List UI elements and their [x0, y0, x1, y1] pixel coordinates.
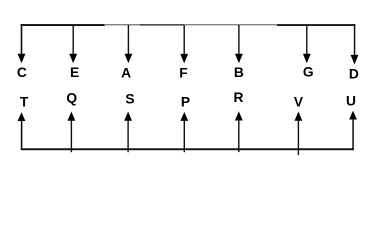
arrowhead G [303, 54, 311, 64]
wire stem B [238, 25, 239, 56]
arrowhead P [180, 112, 188, 121]
wire stem R [238, 120, 239, 153]
wire stem U [352, 119, 354, 151]
arrowhead U [349, 111, 357, 120]
arrowhead E [69, 54, 77, 64]
arrowhead Q [68, 112, 76, 121]
arrowhead S [124, 112, 132, 121]
svg-text:V: V [294, 94, 304, 109]
wire stem D [354, 24, 356, 57]
wire stem S [127, 120, 128, 153]
bottom bus wire [21, 148, 354, 150]
top bus wire left black segment [21, 24, 105, 26]
svg-text:U: U [346, 94, 356, 109]
wire stem Q [71, 120, 72, 153]
wire stem F [184, 25, 185, 56]
wire stem G [306, 25, 307, 56]
wire stem T [21, 120, 23, 150]
top bus wire gray segment [184, 24, 277, 25]
arrowhead T [18, 112, 26, 121]
svg-text:E: E [70, 65, 79, 80]
wire stem V [298, 120, 299, 156]
arrowhead F [180, 54, 188, 64]
svg-text:R: R [234, 90, 244, 105]
svg-text:S: S [125, 91, 134, 106]
wire stem A [128, 25, 129, 56]
arrowhead B [235, 54, 243, 64]
svg-text:G: G [303, 64, 314, 79]
wire stem E [73, 25, 74, 56]
svg-text:C: C [17, 65, 27, 80]
svg-text:A: A [121, 66, 131, 81]
arrowhead R [235, 111, 243, 120]
svg-text:D: D [349, 66, 359, 81]
svg-text:P: P [181, 94, 190, 109]
arrowhead D [351, 55, 359, 65]
top bus wire gray segment 2 [104, 24, 140, 25]
wire stem C [21, 24, 23, 55]
arrowhead V [295, 112, 303, 121]
top bus wire right black segment [277, 24, 355, 26]
svg-text:F: F [179, 65, 187, 80]
arrowhead C [18, 54, 26, 64]
arrowhead A [125, 54, 133, 64]
svg-text:Q: Q [66, 90, 77, 105]
svg-text:B: B [234, 65, 244, 80]
top bus wire mid dark segment [140, 24, 184, 26]
svg-text:T: T [20, 95, 29, 110]
wire stem P [184, 120, 185, 153]
